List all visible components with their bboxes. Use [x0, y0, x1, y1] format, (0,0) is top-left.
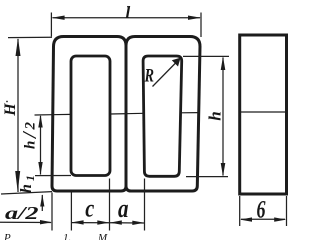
- h/2 dimension: [35, 175, 71, 177]
- a right arrow: [132, 221, 144, 225]
- svg-text:h/2: h/2: [19, 119, 41, 149]
- c right arrow: [97, 220, 109, 224]
- svg-text:l: l: [126, 3, 131, 22]
- side view rectangle: [240, 35, 287, 194]
- H dimension: [8, 36, 52, 38]
- L dimension: [50, 13, 52, 37]
- core outer outline left half: [52, 37, 126, 192]
- L arrows: [52, 16, 65, 20]
- c left arrow: [72, 220, 84, 224]
- svg-text:1.: 1.: [63, 232, 71, 240]
- bottom chained dims: [51, 193, 53, 231]
- svg-text:H: H: [2, 103, 19, 117]
- svg-text:6: 6: [257, 197, 266, 224]
- h/2 arrows: [38, 114, 42, 127]
- h1 arrow (points up at bottom line): [40, 194, 44, 206]
- window 1: [71, 56, 110, 176]
- b arrows: [240, 217, 252, 221]
- R leader: [153, 60, 180, 87]
- faint caption fragments: [3, 232, 108, 240]
- side view mid line: [240, 111, 287, 113]
- b dimension under side view: [239, 196, 241, 226]
- a left arrow: [110, 220, 122, 224]
- R leader arrowhead: [172, 58, 181, 67]
- svg-text:h: h: [206, 111, 225, 120]
- svg-text:R: R: [144, 65, 154, 86]
- H arrows: [16, 38, 21, 56]
- h dimension right of front view: [183, 55, 229, 57]
- mid cut lines, front view: [35, 113, 71, 116]
- window 2: [143, 56, 182, 176]
- svg-text:a: a: [118, 194, 129, 223]
- a/2 right-pointing arrow at x=52: [40, 220, 52, 224]
- svg-text:Р: Р: [3, 232, 11, 240]
- svg-text:c: c: [85, 196, 94, 223]
- h arrows: [221, 57, 226, 70]
- svg-text:М: М: [97, 232, 108, 240]
- svg-text:a/2: a/2: [5, 203, 39, 223]
- h1 arrow shaft: [41, 195, 43, 211]
- core outer outline right half: [126, 37, 200, 192]
